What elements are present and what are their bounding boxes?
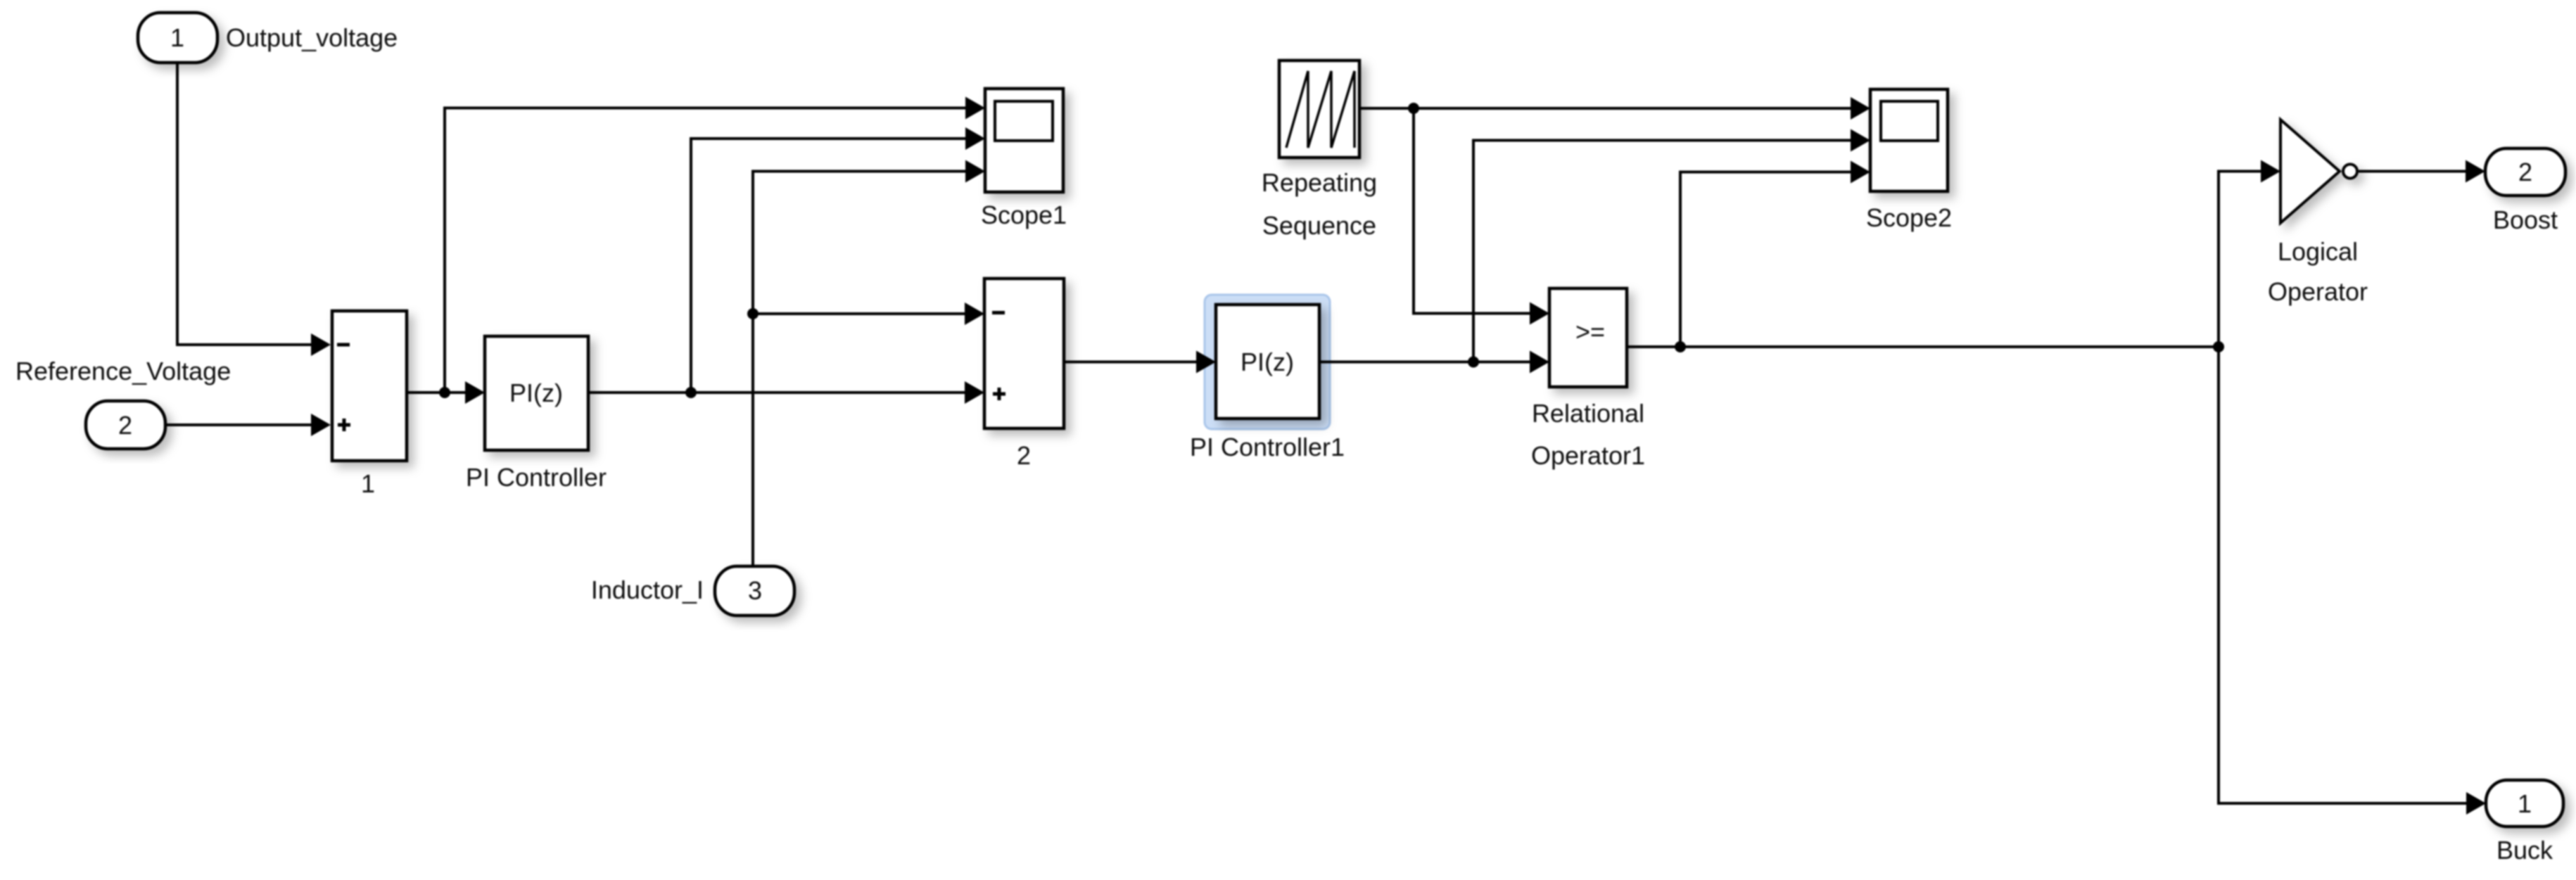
wire from inport 2 to Sum 1 plus input [165,414,331,436]
svg-text:1: 1 [170,23,184,52]
junction node on Repeating Sequence output [1408,103,1419,114]
arrowhead Scope1 input 1 [965,97,985,120]
svg-text:PI(z): PI(z) [509,378,563,407]
wire Repeating Sequence output to Scope2 input 1 [1359,97,1870,120]
wire from inport 3 up to Scope1 input 3 [753,172,968,567]
outport 2 Boost oval [2485,148,2565,196]
svg-text:PI Controller1: PI Controller1 [1190,433,1345,461]
sum 1 minus sign [337,343,350,347]
svg-text:1: 1 [361,469,375,498]
wire PI Controller output to Sum 2 plus input [588,381,984,404]
svg-text:Inductor_I: Inductor_I [591,575,704,604]
wire from inport 1 down to Sum 1 minus input [177,63,331,356]
sum block 1 [332,311,407,461]
wire PI Controller1 output to Relational Operator1 input 2 [1319,351,1549,374]
svg-text:Operator: Operator [2268,277,2368,306]
PI Controller1 block U2 [1216,305,1319,419]
selection highlight around PI Controller1 [1205,295,1330,429]
svg-text:Output_voltage: Output_voltage [226,23,398,52]
svg-text:1: 1 [2518,789,2532,818]
inport 1 (Output_voltage) oval [138,13,217,63]
wire branch up to Scope2 input 2 [1473,129,1870,362]
wire Relational Operator1 output across to logic junction [1627,345,2219,348]
svg-text:Reference_Voltage: Reference_Voltage [15,357,231,385]
wire sum 2 output to PI Controller1 input [1064,351,1216,374]
svg-text:Buck: Buck [2496,836,2553,865]
svg-text:Relational: Relational [1532,399,1644,428]
junction node at sum1 output branch [439,387,450,398]
wire sum 1 output to PI Controller input [407,381,485,404]
Scope1 block [985,89,1063,192]
sum 2 plus sign [993,388,1005,400]
Scope1 screen [995,101,1053,141]
wire branch up to Scope1 input 1 [445,108,968,393]
sum block 2 [984,279,1064,428]
Logical Operator NOT gate [2280,120,2357,223]
arrowhead Scope1 input 3 [965,160,985,183]
junction node on PI output branch [685,387,697,398]
Repeating Sequence block [1279,60,1359,158]
svg-text:Boost: Boost [2493,205,2558,234]
svg-text:2: 2 [1017,441,1031,470]
svg-text:PI(z): PI(z) [1241,347,1294,376]
outport 1 Buck oval [2486,780,2563,827]
junction node on relational output [1675,341,1686,352]
svg-text:2: 2 [118,411,132,440]
Relational Operator1 block [1549,288,1627,387]
junction node feeding NOT gate and Buck [2213,341,2224,352]
svg-text:3: 3 [748,576,762,605]
wire branch up to Scope2 input 3 [1680,161,1870,347]
sum 2 minus sign [992,311,1005,314]
wire branch down to Buck outport [2219,347,2486,815]
svg-text:Repeating: Repeating [1262,168,1377,197]
inport 3 (Inductor_I) oval [715,566,794,616]
wire branch up to Scope1 input 2 [691,139,968,393]
Scope2 screen [1881,101,1938,141]
inport 2 (Reference_Voltage) oval [86,401,165,449]
wire branch down to Relational Operator1 input 1 [1414,108,1549,325]
arrowhead Scope1 input 2 [965,127,985,150]
junction node on Inductor_I wire [747,308,759,319]
wire NOT gate output to Boost outport [2359,160,2485,183]
Scope2 block [1870,89,1948,191]
svg-text:Operator1: Operator1 [1531,441,1645,470]
svg-text:Logical: Logical [2278,237,2358,266]
svg-text:Scope2: Scope2 [1866,203,1952,232]
sawtooth icon [1286,71,1354,148]
svg-text:Scope1: Scope1 [981,200,1067,229]
svg-text:Sequence: Sequence [1262,211,1376,240]
wire branch up to Logical Operator input [2219,160,2280,347]
wire branch to Sum 2 minus input [753,302,984,325]
svg-text:PI Controller: PI Controller [466,463,607,492]
svg-text:>=: >= [1575,317,1605,346]
junction node on PI Controller1 output [1468,357,1479,368]
PI Controller block U1 [485,336,588,450]
sum 1 plus sign [338,419,350,431]
svg-text:2: 2 [2518,158,2532,186]
